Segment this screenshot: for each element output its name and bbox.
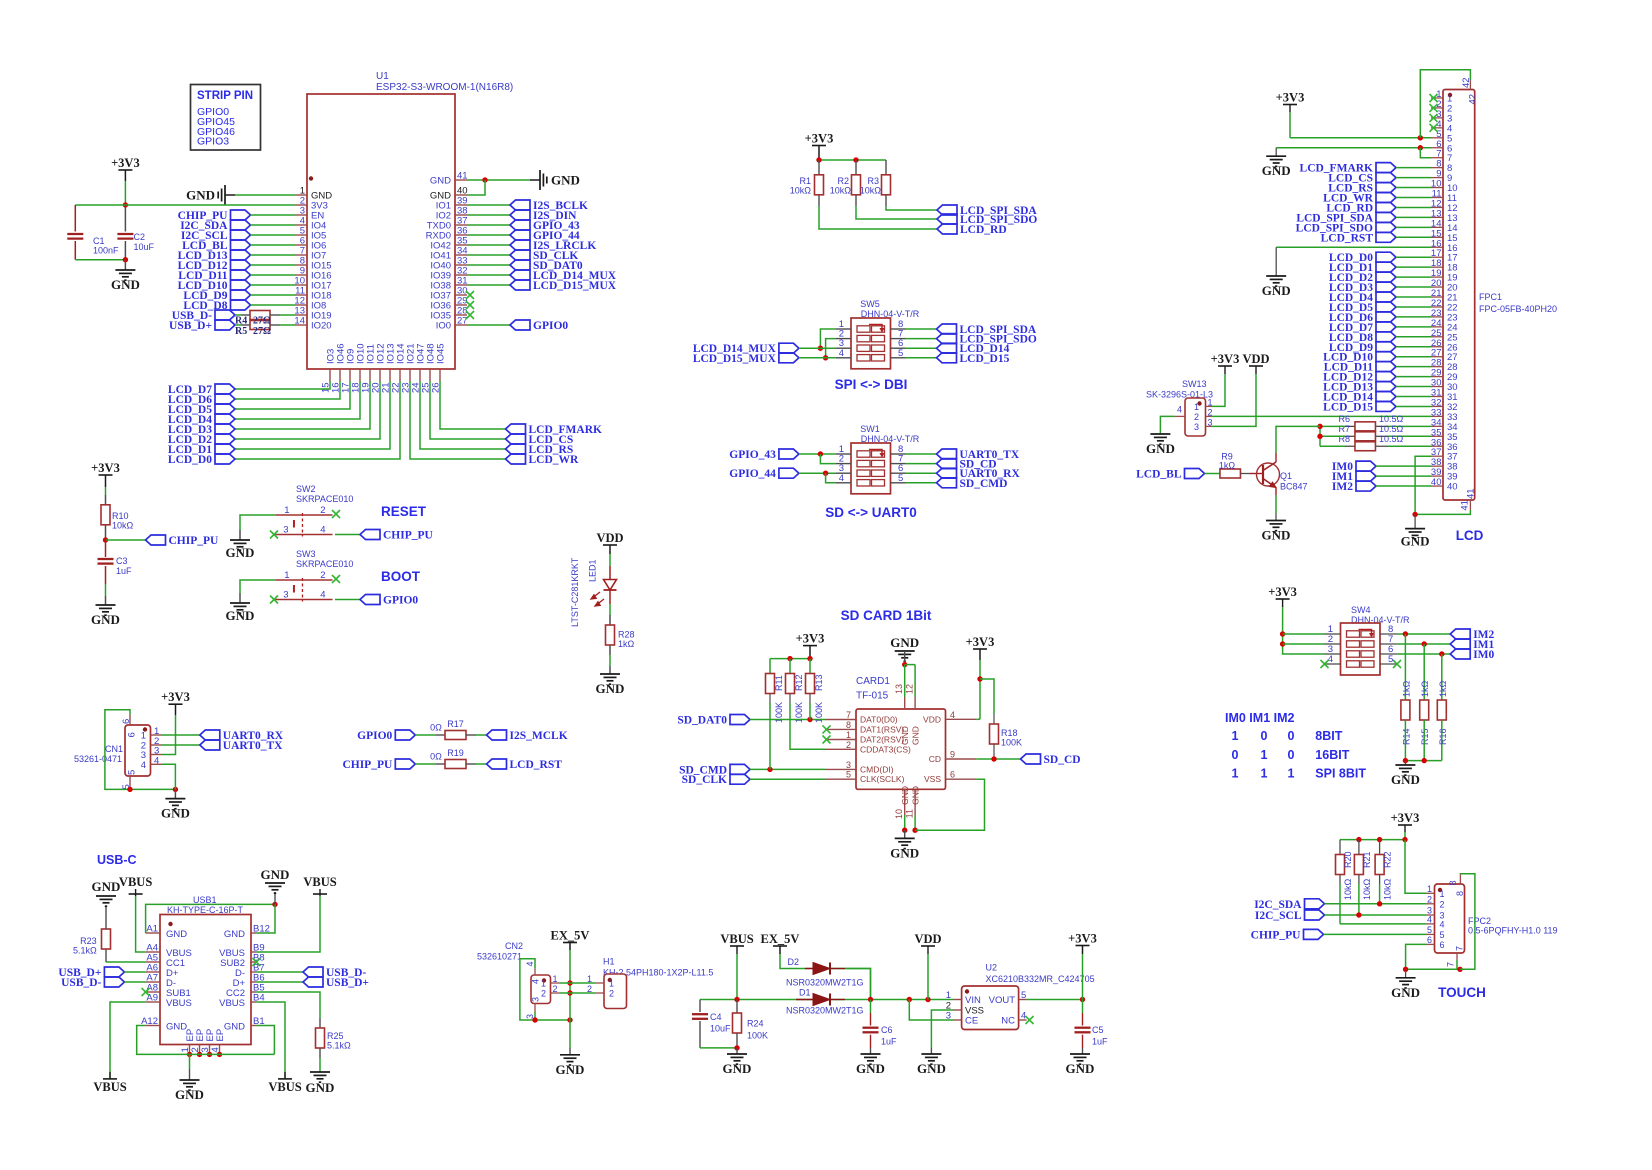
svg-text:5: 5 [898,348,903,359]
svg-text:SD_CD: SD_CD [1044,754,1081,766]
svg-text:GND: GND [430,176,451,187]
svg-text:NC: NC [1001,1016,1015,1027]
svg-text:R8: R8 [1338,434,1350,444]
svg-text:10uF: 10uF [134,242,155,252]
svg-text:4: 4 [839,473,844,484]
svg-text:41: 41 [1466,488,1477,499]
svg-text:0: 0 [1288,729,1295,743]
svg-text:C6: C6 [881,1025,893,1035]
svg-text:GND: GND [306,1080,335,1095]
svg-text:DAT0(D0): DAT0(D0) [860,715,898,725]
svg-text:LED1: LED1 [588,559,598,582]
svg-text:2: 2 [609,989,614,999]
svg-text:3: 3 [1194,422,1199,432]
svg-text:Q1: Q1 [1280,471,1292,481]
svg-text:2: 2 [587,984,592,994]
svg-text:0Ω: 0Ω [430,752,442,762]
svg-text:5: 5 [1440,930,1445,940]
svg-text:0Ω: 0Ω [430,723,442,733]
svg-text:1: 1 [946,990,951,1001]
svg-text:4: 4 [1177,405,1182,415]
svg-text:10.5Ω: 10.5Ω [1379,434,1404,444]
svg-text:R19: R19 [447,748,464,758]
svg-text:R1: R1 [799,176,811,186]
svg-text:GND: GND [175,1087,204,1102]
svg-text:CHIP_PU: CHIP_PU [169,535,220,547]
svg-text:VBUS: VBUS [303,875,336,889]
svg-text:1: 1 [1427,884,1432,894]
svg-text:FPC1: FPC1 [1479,292,1502,302]
svg-text:41: 41 [457,171,468,182]
svg-text:+3V3: +3V3 [1268,585,1297,599]
svg-text:27Ω: 27Ω [253,316,271,327]
svg-text:R25: R25 [327,1031,344,1041]
svg-text:GPIO0: GPIO0 [357,730,392,742]
svg-text:5: 5 [1427,925,1432,935]
svg-text:GND: GND [551,173,580,188]
svg-text:1: 1 [846,730,851,740]
svg-text:C5: C5 [1092,1025,1104,1035]
svg-text:GPIO_44: GPIO_44 [729,468,776,480]
svg-text:53261-0471: 53261-0471 [74,754,122,764]
svg-text:SD_CMD: SD_CMD [960,478,1008,490]
svg-text:IM2: IM2 [1332,481,1353,493]
svg-text:BC847: BC847 [1280,482,1308,492]
svg-text:IO0: IO0 [436,321,451,332]
svg-text:VBUS: VBUS [119,875,152,889]
svg-text:100K: 100K [747,1031,768,1041]
svg-text:+3V3: +3V3 [1276,91,1305,105]
svg-text:I2C_SDA: I2C_SDA [1254,899,1302,911]
svg-text:VDD: VDD [914,932,941,946]
svg-text:GND: GND [723,1061,752,1076]
svg-text:1: 1 [553,974,558,984]
svg-text:7: 7 [1446,962,1456,967]
svg-text:LCD_RST: LCD_RST [1321,232,1374,244]
svg-text:41: 41 [1460,500,1471,511]
svg-text:2: 2 [1440,899,1445,909]
svg-text:GND: GND [166,929,187,940]
svg-text:CD: CD [929,754,941,764]
svg-text:C3: C3 [116,556,128,566]
svg-text:NSR0320MW2T1G: NSR0320MW2T1G [786,978,864,988]
svg-text:1kΩ: 1kΩ [618,639,635,649]
svg-text:VSS: VSS [924,774,941,784]
svg-text:DAT1(RSV): DAT1(RSV) [860,724,904,734]
svg-text:5: 5 [1021,990,1026,1001]
svg-text:5: 5 [127,770,138,775]
svg-text:+3V3: +3V3 [91,461,120,475]
svg-text:1: 1 [1261,748,1268,762]
svg-text:1: 1 [1232,767,1239,781]
svg-text:2: 2 [1194,412,1199,422]
svg-text:GND: GND [856,1061,885,1076]
svg-text:R16: R16 [1438,728,1448,745]
svg-text:1kΩ: 1kΩ [1438,680,1448,697]
svg-text:D2: D2 [787,957,799,967]
svg-text:9: 9 [950,750,955,760]
svg-text:14: 14 [294,316,305,327]
svg-text:6: 6 [1427,935,1432,945]
svg-text:0: 0 [1261,729,1268,743]
svg-text:2: 2 [1427,894,1432,904]
svg-text:C2: C2 [134,232,146,242]
svg-text:LCD_D15: LCD_D15 [960,353,1010,365]
svg-text:VBUS: VBUS [720,932,753,946]
svg-text:GPIO_43: GPIO_43 [729,449,776,461]
svg-text:USB_D-: USB_D- [61,977,101,989]
svg-text:GPIO0: GPIO0 [533,320,568,332]
svg-text:3: 3 [531,997,541,1002]
svg-text:FPC2: FPC2 [1468,916,1491,926]
svg-text:10kΩ: 10kΩ [112,521,134,531]
svg-text:0: 0 [1288,748,1295,762]
svg-text:6: 6 [950,770,955,780]
svg-text:R22: R22 [1383,851,1393,868]
svg-text:+3V3: +3V3 [966,635,995,649]
svg-text:+3V3: +3V3 [111,156,140,170]
svg-text:LCD_RST: LCD_RST [510,759,563,771]
svg-text:4: 4 [154,755,159,766]
svg-text:R12: R12 [794,674,804,691]
svg-text:10kΩ: 10kΩ [860,186,882,196]
svg-text:40: 40 [1431,477,1442,488]
svg-text:R11: R11 [774,675,784,691]
svg-text:SW4: SW4 [1351,605,1371,615]
svg-text:R14: R14 [1401,728,1411,745]
svg-text:USB_D+: USB_D+ [169,320,212,332]
svg-text:GND: GND [917,1061,946,1076]
svg-text:SKRPACE010: SKRPACE010 [296,559,353,569]
svg-text:GND: GND [161,806,190,821]
svg-text:8: 8 [846,720,851,730]
svg-text:GND: GND [261,867,290,882]
svg-text:SW3: SW3 [296,549,316,559]
svg-text:GND: GND [911,786,921,805]
svg-text:10kΩ: 10kΩ [1383,878,1393,900]
svg-text:KH-TYPE-C-16P-T: KH-TYPE-C-16P-T [167,905,244,915]
svg-text:10: 10 [894,809,904,819]
svg-text:1kΩ: 1kΩ [1401,680,1411,697]
svg-text:R7: R7 [1338,424,1350,434]
svg-text:2: 2 [553,984,558,994]
svg-text:2: 2 [320,505,325,516]
svg-text:1kΩ: 1kΩ [1420,680,1430,697]
svg-text:UART0_TX: UART0_TX [223,740,283,752]
svg-text:6: 6 [1440,940,1445,950]
svg-text:1: 1 [1232,729,1239,743]
svg-text:1: 1 [587,974,592,984]
svg-text:GND: GND [890,845,919,860]
svg-text:GND: GND [596,681,625,696]
svg-text:BOOT: BOOT [381,569,421,584]
svg-text:4: 4 [320,590,325,601]
svg-text:5.1kΩ: 5.1kΩ [73,946,97,956]
svg-text:VDD: VDD [596,531,623,545]
svg-text:10kΩ: 10kΩ [790,186,812,196]
svg-text:GND: GND [226,608,255,623]
svg-text:IM0 IM1 IM2: IM0 IM1 IM2 [1225,711,1295,725]
svg-text:GND: GND [91,612,120,627]
svg-text:USB-C: USB-C [97,853,137,867]
svg-text:RESET: RESET [381,504,427,519]
svg-text:H1: H1 [603,957,615,967]
svg-text:R13: R13 [814,674,824,691]
svg-text:8BIT: 8BIT [1315,729,1342,743]
svg-text:GND: GND [186,188,215,203]
svg-text:SD CARD 1Bit: SD CARD 1Bit [841,608,932,623]
svg-text:VDD: VDD [1242,352,1269,366]
svg-text:CMD(DI): CMD(DI) [860,764,894,774]
svg-text:2: 2 [320,570,325,581]
svg-text:EX_5V: EX_5V [551,929,590,943]
svg-text:27Ω: 27Ω [253,326,271,337]
svg-text:5: 5 [898,473,903,484]
svg-text:6: 6 [121,719,132,724]
svg-text:LCD_D0: LCD_D0 [168,454,212,466]
svg-text:C4: C4 [710,1012,722,1022]
svg-text:10.5Ω: 10.5Ω [1379,424,1404,434]
svg-text:LCD_RD: LCD_RD [960,224,1007,236]
svg-text:SW1: SW1 [860,424,880,434]
svg-text:4: 4 [141,760,146,771]
svg-text:GND: GND [1066,1061,1095,1076]
svg-text:+3V3: +3V3 [1068,932,1097,946]
svg-text:VBUS: VBUS [93,1080,126,1094]
svg-text:GND: GND [1401,534,1430,549]
svg-text:SW5: SW5 [860,299,880,309]
svg-text:4: 4 [950,710,955,720]
svg-text:10kΩ: 10kΩ [1362,878,1372,900]
svg-text:2: 2 [846,740,851,750]
svg-text:+3V3: +3V3 [805,132,834,146]
svg-text:CHIP_PU: CHIP_PU [342,759,393,771]
svg-text:SD_DAT0: SD_DAT0 [677,715,727,727]
svg-text:2: 2 [1208,407,1213,417]
svg-text:1: 1 [1194,402,1199,412]
svg-text:XC6210B332MR_C424705: XC6210B332MR_C424705 [986,974,1095,984]
svg-text:LCD: LCD [1456,528,1484,543]
svg-text:SPI <-> DBI: SPI <-> DBI [835,377,908,392]
svg-text:100nF: 100nF [93,246,119,256]
svg-text:U1: U1 [376,71,389,82]
svg-text:R4: R4 [235,316,247,327]
svg-text:R18: R18 [1001,728,1018,738]
svg-text:I2S_MCLK: I2S_MCLK [510,730,568,742]
svg-text:R17: R17 [447,719,464,729]
svg-text:R6: R6 [1338,414,1350,424]
svg-text:3: 3 [846,760,851,770]
svg-text:GND: GND [1262,283,1291,298]
svg-text:100K: 100K [1001,738,1022,748]
svg-text:A1: A1 [146,924,158,935]
svg-text:4: 4 [1440,919,1445,929]
svg-text:R23: R23 [80,936,97,946]
svg-text:2: 2 [541,989,546,999]
svg-text:IM0: IM0 [1473,649,1494,661]
svg-text:1: 1 [1288,767,1295,781]
svg-text:5.1kΩ: 5.1kΩ [327,1041,351,1051]
svg-text:GND: GND [1391,772,1420,787]
svg-text:4: 4 [1427,914,1432,924]
svg-text:532610271: 532610271 [477,952,522,962]
svg-text:EX_5V: EX_5V [761,932,800,946]
svg-text:GND: GND [900,786,910,805]
svg-text:CLK(SCLK): CLK(SCLK) [860,774,905,784]
svg-text:CE: CE [965,1016,978,1027]
svg-text:+3V3: +3V3 [161,690,190,704]
svg-text:CHIP_PU: CHIP_PU [1251,929,1302,941]
svg-text:R10: R10 [112,511,129,521]
svg-text:4: 4 [525,961,535,966]
svg-text:D1: D1 [799,988,811,998]
svg-text:GPIO3: GPIO3 [197,136,229,148]
svg-text:FPC-05FB-40PH20: FPC-05FB-40PH20 [1479,304,1557,314]
svg-text:I2C_SCL: I2C_SCL [1255,910,1302,922]
svg-text:U2: U2 [986,963,998,973]
svg-text:6: 6 [127,732,138,737]
svg-text:1: 1 [1261,767,1268,781]
svg-text:IO20: IO20 [311,321,332,332]
svg-text:CARD1: CARD1 [856,676,890,687]
svg-text:42: 42 [1468,94,1479,105]
svg-text:4: 4 [320,525,325,536]
svg-text:IO45: IO45 [436,343,447,364]
svg-text:1: 1 [284,570,289,581]
svg-text:R5: R5 [235,326,247,337]
svg-text:USB1: USB1 [193,895,217,905]
svg-text:SW13: SW13 [1182,379,1207,389]
svg-text:C1: C1 [93,236,105,246]
svg-text:VBUS: VBUS [166,998,192,1009]
svg-text:GND: GND [226,545,255,560]
svg-text:+3V3: +3V3 [1391,811,1420,825]
svg-text:16BIT: 16BIT [1315,748,1349,762]
svg-text:10uF: 10uF [710,1024,731,1034]
svg-text:7: 7 [846,710,851,720]
svg-text:5: 5 [1388,654,1393,665]
svg-text:GND: GND [1391,985,1420,1000]
svg-text:VDD: VDD [923,714,941,724]
svg-text:+3V3: +3V3 [796,632,825,646]
svg-text:R15: R15 [1420,728,1430,745]
svg-text:VBUS: VBUS [219,998,245,1009]
svg-text:1: 1 [1440,889,1445,899]
svg-text:LCD_BL: LCD_BL [1136,469,1182,481]
svg-text:R28: R28 [618,630,635,640]
svg-text:3: 3 [283,525,288,536]
svg-text:GND: GND [111,277,140,292]
svg-text:NSR0320MW2T1G: NSR0320MW2T1G [786,1006,864,1016]
svg-text:GPIO0: GPIO0 [383,595,418,607]
svg-text:GND: GND [890,635,919,650]
svg-text:10kΩ: 10kΩ [1343,878,1353,900]
svg-text:GND: GND [224,929,245,940]
svg-text:R24: R24 [747,1019,764,1029]
svg-text:STRIP PIN: STRIP PIN [197,90,253,102]
svg-text:GND: GND [1262,163,1291,178]
svg-text:GND: GND [224,1022,245,1033]
svg-text:3: 3 [283,590,288,601]
svg-text:SKRPACE010: SKRPACE010 [296,494,353,504]
svg-text:40: 40 [1447,482,1458,493]
svg-text:8: 8 [1455,891,1465,896]
svg-text:1: 1 [284,505,289,516]
svg-text:R20: R20 [1343,851,1353,868]
svg-text:CN2: CN2 [505,941,523,951]
svg-text:+3V3: +3V3 [1211,352,1240,366]
svg-text:12: 12 [905,684,915,694]
svg-text:1uF: 1uF [116,566,132,576]
svg-text:13: 13 [894,684,904,694]
svg-text:GND: GND [1262,528,1291,543]
svg-text:VIN: VIN [965,995,981,1006]
svg-text:SD_CLK: SD_CLK [682,774,727,786]
svg-text:7: 7 [1455,946,1465,951]
svg-text:EP: EP [215,1029,226,1042]
svg-text:SPI 8BIT: SPI 8BIT [1315,767,1366,781]
svg-text:5: 5 [846,770,851,780]
svg-text:4: 4 [1328,654,1333,665]
svg-text:R2: R2 [837,176,849,186]
svg-text:1: 1 [609,979,614,989]
svg-text:ESP32-S3-WROOM-1(N16R8): ESP32-S3-WROOM-1(N16R8) [376,82,513,93]
svg-text:4: 4 [531,979,541,984]
svg-text:11: 11 [905,809,915,818]
svg-text:LTST-C281KRKT: LTST-C281KRKT [570,557,580,627]
svg-text:10kΩ: 10kΩ [830,186,852,196]
svg-text:1uF: 1uF [1092,1037,1108,1047]
svg-text:CHIP_PU: CHIP_PU [383,530,434,542]
svg-text:0.5-6PQFHY-H1.0 119: 0.5-6PQFHY-H1.0 119 [1468,926,1558,936]
svg-text:0: 0 [1232,748,1239,762]
svg-text:GND: GND [911,726,921,745]
svg-text:LCD_WR: LCD_WR [529,454,580,466]
svg-text:1kΩ: 1kΩ [1219,461,1236,471]
svg-text:8: 8 [1448,880,1458,885]
svg-text:1: 1 [541,979,546,989]
svg-text:USB_D+: USB_D+ [326,977,369,989]
svg-text:CN1: CN1 [105,744,123,754]
svg-text:10.5Ω: 10.5Ω [1379,414,1404,424]
svg-text:LCD_D15_MUX: LCD_D15_MUX [693,353,777,365]
svg-text:SW2: SW2 [296,484,316,494]
svg-text:LCD_D15_MUX: LCD_D15_MUX [533,280,617,292]
svg-text:1uF: 1uF [881,1037,897,1047]
svg-text:GND: GND [92,879,121,894]
svg-text:TF-015: TF-015 [856,691,889,702]
svg-text:DAT2(RSV): DAT2(RSV) [860,735,904,745]
svg-text:R3: R3 [867,176,879,186]
svg-text:TOUCH: TOUCH [1438,985,1486,1000]
svg-text:LCD_D15: LCD_D15 [1323,401,1373,413]
svg-text:SD <-> UART0: SD <-> UART0 [825,505,917,520]
svg-text:GND: GND [900,726,910,745]
svg-text:VOUT: VOUT [989,995,1016,1006]
svg-text:27: 27 [457,316,468,327]
svg-text:R21: R21 [1362,851,1372,868]
svg-text:GND: GND [556,1062,585,1077]
svg-text:GND: GND [1146,441,1175,456]
svg-text:VBUS: VBUS [268,1080,301,1094]
svg-text:4: 4 [839,348,844,359]
